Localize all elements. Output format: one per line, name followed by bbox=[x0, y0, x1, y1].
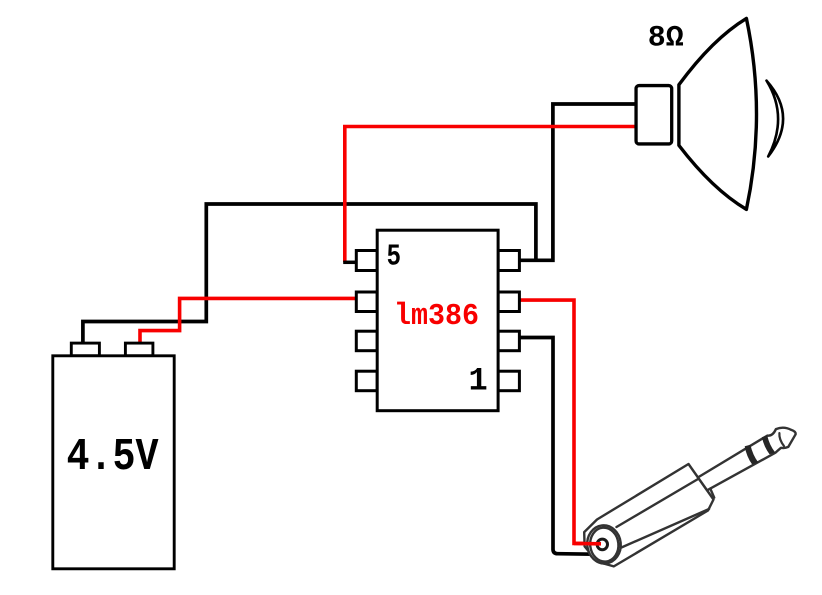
svg-text:4.5V: 4.5V bbox=[67, 431, 160, 483]
pin (left row 2) bbox=[356, 292, 377, 312]
jack plug shaft with neck and tip bbox=[698, 428, 796, 491]
jack barrel silhouette bbox=[584, 464, 713, 566]
jack plug ring 1 bbox=[745, 445, 759, 465]
wire IC pin 3 to jack sleeve (black) bbox=[519, 338, 593, 555]
battery terminal negative bbox=[71, 343, 99, 356]
jack end face inner rim bbox=[589, 526, 621, 563]
battery body bbox=[53, 356, 174, 569]
svg-text:8Ω: 8Ω bbox=[648, 21, 684, 55]
pin (right row 2) bbox=[498, 292, 519, 312]
jack tip facet bbox=[779, 433, 784, 446]
svg-text:5: 5 bbox=[387, 240, 402, 275]
pin (left row 4) bbox=[356, 371, 377, 391]
pin (right row 4) bbox=[498, 371, 519, 391]
jack end face outer bbox=[585, 524, 622, 565]
jack end collar inner edge bbox=[710, 489, 714, 498]
jack barrel ridge lower bbox=[618, 509, 709, 549]
speaker magnet bbox=[636, 86, 672, 144]
pin (left row 3) bbox=[356, 331, 377, 351]
wire speaker red lead to IC pin 5 (red) bbox=[345, 127, 636, 263]
wire IC pin 2 to jack tip (red) bbox=[519, 300, 590, 543]
wire battery negative to IC pin 8 (black) bbox=[83, 204, 536, 352]
jack barrel ridge upper bbox=[617, 476, 705, 528]
pin 8 (right row 1) bbox=[498, 251, 519, 271]
pin (right row 3) bbox=[498, 331, 519, 351]
speaker cone bbox=[679, 18, 757, 209]
speaker LS1 bbox=[636, 18, 783, 209]
op-amp IC U1 lm386 body bbox=[356, 230, 519, 411]
speaker sound wave bbox=[767, 81, 784, 157]
svg-text:lm386: lm386 bbox=[394, 299, 479, 334]
audio jack J1 bbox=[584, 428, 795, 567]
wire speaker black lead to IC pin 8 node bbox=[519, 104, 636, 260]
wire red end into jack hole bbox=[574, 542, 601, 546]
IC body bbox=[377, 230, 498, 411]
wire battery positive to IC pin 2 (red) bbox=[140, 298, 356, 352]
jack plug ring 2 bbox=[762, 436, 775, 455]
pin 5 (left row 1) bbox=[356, 251, 377, 271]
wire black stub into IC pin 5 bbox=[343, 261, 357, 265]
battery BT1 4.5V bbox=[53, 343, 174, 569]
battery terminal positive bbox=[125, 343, 152, 356]
svg-text:1: 1 bbox=[469, 362, 488, 399]
jack hole bbox=[597, 539, 607, 550]
